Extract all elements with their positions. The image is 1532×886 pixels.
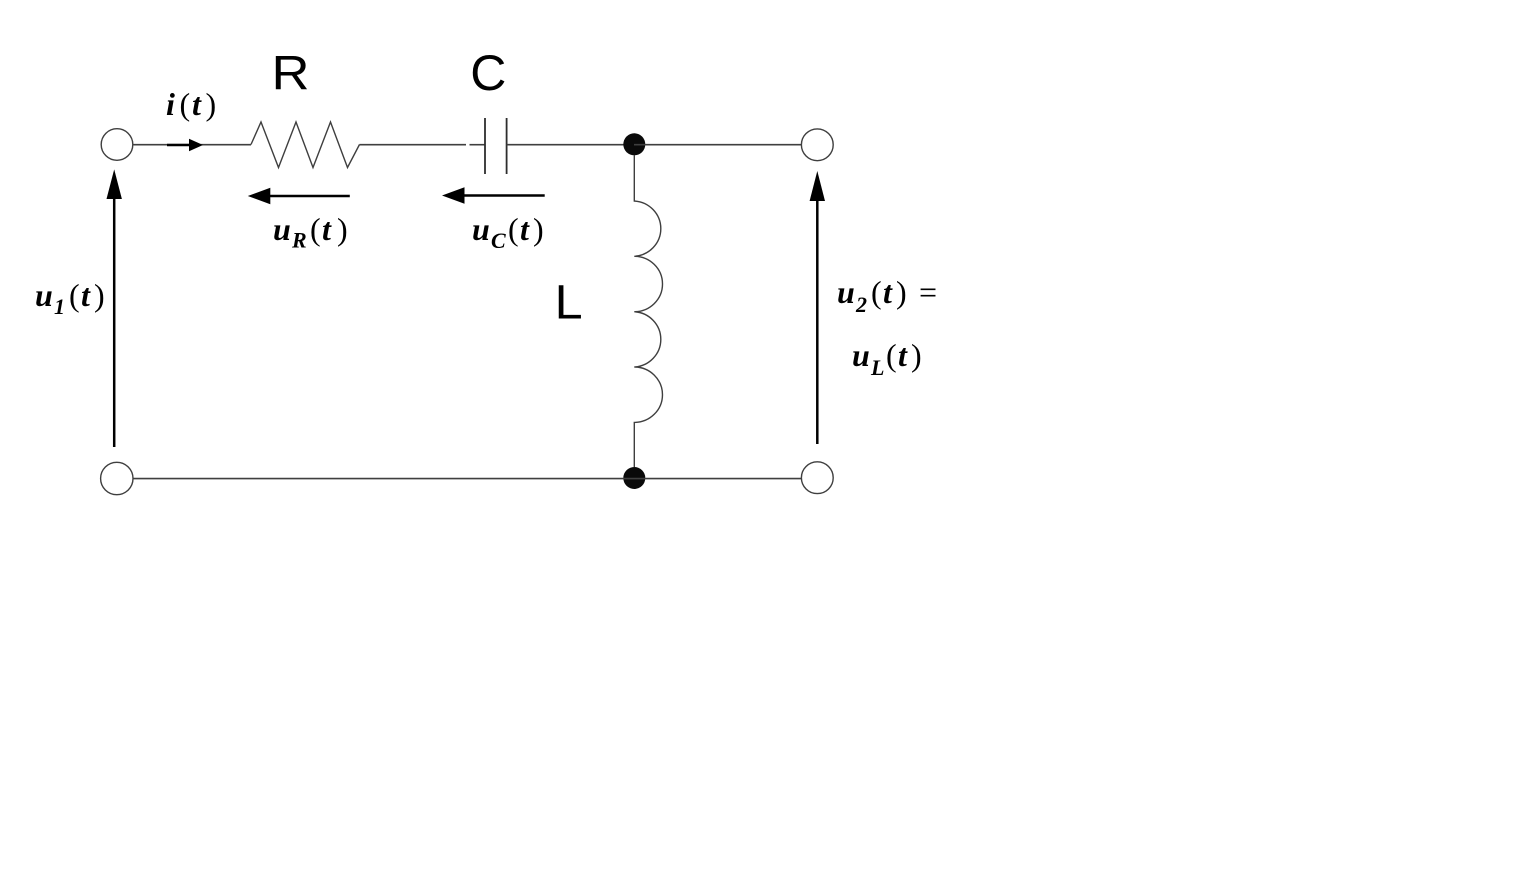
- terminal top-left: [101, 129, 133, 161]
- label uC(t): [472, 211, 544, 253]
- svg-text:u: u: [837, 274, 855, 310]
- capacitor C: [485, 118, 507, 174]
- svg-text:(: (: [871, 274, 882, 310]
- svg-text:u: u: [273, 211, 291, 247]
- svg-text:t: t: [322, 211, 332, 247]
- svg-text:(: (: [310, 211, 321, 247]
- bottom wire: [133, 478, 801, 480]
- voltage arrow uR: [248, 188, 350, 205]
- svg-text:1: 1: [54, 294, 65, 319]
- svg-text:): ): [911, 337, 922, 373]
- svg-text:C: C: [491, 228, 506, 253]
- current arrow i(t): [167, 139, 203, 152]
- voltage arrow u2: [810, 171, 825, 444]
- svg-text:R: R: [272, 48, 310, 101]
- svg-text:t: t: [883, 274, 893, 310]
- svg-text:): ): [337, 211, 348, 247]
- svg-text:2: 2: [855, 292, 867, 317]
- terminal bottom-left: [101, 462, 133, 494]
- wire C to node A: [507, 144, 634, 146]
- svg-text:): ): [206, 86, 217, 122]
- svg-text:(: (: [886, 337, 897, 373]
- label u2(t) =: [837, 274, 937, 317]
- svg-text:u: u: [852, 337, 870, 373]
- svg-text:(: (: [508, 211, 519, 247]
- node B (junction dot bottom): [623, 467, 645, 489]
- wire between R and C: [360, 144, 467, 146]
- svg-text:): ): [533, 211, 544, 247]
- svg-text:t: t: [520, 211, 530, 247]
- svg-text:=: =: [919, 274, 937, 310]
- voltage arrow uC: [442, 187, 545, 204]
- svg-text:t: t: [81, 277, 91, 313]
- svg-text:R: R: [291, 228, 307, 253]
- svg-text:(: (: [69, 277, 80, 313]
- svg-text:t: t: [192, 86, 202, 122]
- svg-text:C: C: [470, 45, 506, 101]
- inductor L (coil): [634, 155, 662, 467]
- label i(t): [166, 86, 216, 122]
- svg-text:u: u: [35, 277, 53, 313]
- label uR(t): [273, 211, 348, 253]
- svg-text:L: L: [555, 277, 583, 330]
- svg-text:): ): [94, 277, 105, 313]
- terminal bottom-right: [801, 462, 833, 494]
- resistor R: [251, 122, 360, 168]
- label u1(t): [35, 277, 105, 319]
- wire node A to terminal top-right: [634, 144, 801, 146]
- svg-text:i: i: [166, 86, 175, 122]
- wire top-left segment: [133, 144, 251, 146]
- node A (junction dot top): [623, 133, 645, 155]
- svg-text:(: (: [180, 86, 191, 122]
- voltage arrow u1: [107, 169, 122, 447]
- label uL(t): [852, 337, 922, 380]
- svg-text:L: L: [870, 355, 884, 380]
- svg-text:): ): [896, 274, 907, 310]
- terminal top-right: [801, 129, 833, 161]
- svg-text:u: u: [472, 211, 490, 247]
- svg-text:t: t: [898, 337, 908, 373]
